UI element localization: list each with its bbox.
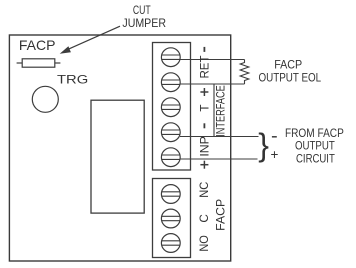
terminal block TB2 FACP relay: [153, 179, 191, 258]
arrow from CUT JUMPER to jumper: [60, 26, 120, 54]
pin label minus (RET-): [203, 47, 205, 52]
screw terminal RET+ (pin 2): [161, 73, 180, 92]
pin label plus (INP+): [200, 161, 208, 169]
svg-text:NO: NO: [198, 235, 211, 252]
pin label plus (RET+): [200, 88, 208, 96]
screw terminal RET- (pin 1): [161, 48, 180, 67]
screw terminal NC: [161, 185, 180, 204]
svg-text:FACP: FACP: [213, 199, 227, 231]
relay module (inner rectangle): [91, 100, 144, 213]
svg-text:INTERFACE: INTERFACE: [216, 85, 228, 137]
svg-text:OUTPUT: OUTPUT: [295, 140, 335, 153]
svg-text:}: }: [258, 127, 269, 163]
jumper FACP (cuttable jumper): [17, 59, 61, 67]
svg-text:C: C: [198, 214, 211, 222]
trigger pad TRG (circle): [32, 86, 58, 112]
svg-text:FROM FACP: FROM FACP: [285, 127, 344, 140]
svg-text:NC: NC: [198, 182, 211, 198]
svg-text:+: +: [271, 147, 279, 162]
wire INP+ to FACP output circuit: [180, 158, 258, 160]
node minus (from FACP output): [272, 136, 277, 138]
wire INP- to FACP output circuit: [180, 136, 259, 138]
svg-text:JUMPER: JUMPER: [122, 17, 166, 30]
svg-text:CIRCUIT: CIRCUIT: [296, 153, 335, 166]
resistor FACP OUTPUT EOL: [240, 60, 249, 85]
board outline: [9, 35, 230, 261]
screw terminal T (pin 3): [161, 98, 180, 117]
svg-text:RET: RET: [198, 56, 211, 79]
interface label box left edge: [213, 84, 215, 137]
svg-text:T: T: [198, 105, 211, 112]
screw terminal INP+ (pin 5): [161, 148, 180, 167]
screw terminal INP- (pin 4): [161, 123, 180, 142]
screw terminal NO: [161, 234, 180, 253]
svg-text:FACP: FACP: [274, 59, 302, 72]
svg-text:FACP: FACP: [19, 37, 56, 53]
svg-text:INP: INP: [198, 136, 211, 157]
svg-text:OUTPUT EOL: OUTPUT EOL: [259, 71, 322, 84]
wire RET+ to EOL resistor bottom: [180, 83, 245, 85]
svg-text:CUT: CUT: [133, 4, 151, 17]
svg-text:TRG: TRG: [57, 73, 88, 87]
pin label minus (INP-): [203, 123, 205, 128]
wire RET- to EOL resistor top: [180, 59, 245, 61]
screw terminal C: [161, 209, 180, 228]
terminal block TB1 INTERFACE: [153, 43, 191, 171]
